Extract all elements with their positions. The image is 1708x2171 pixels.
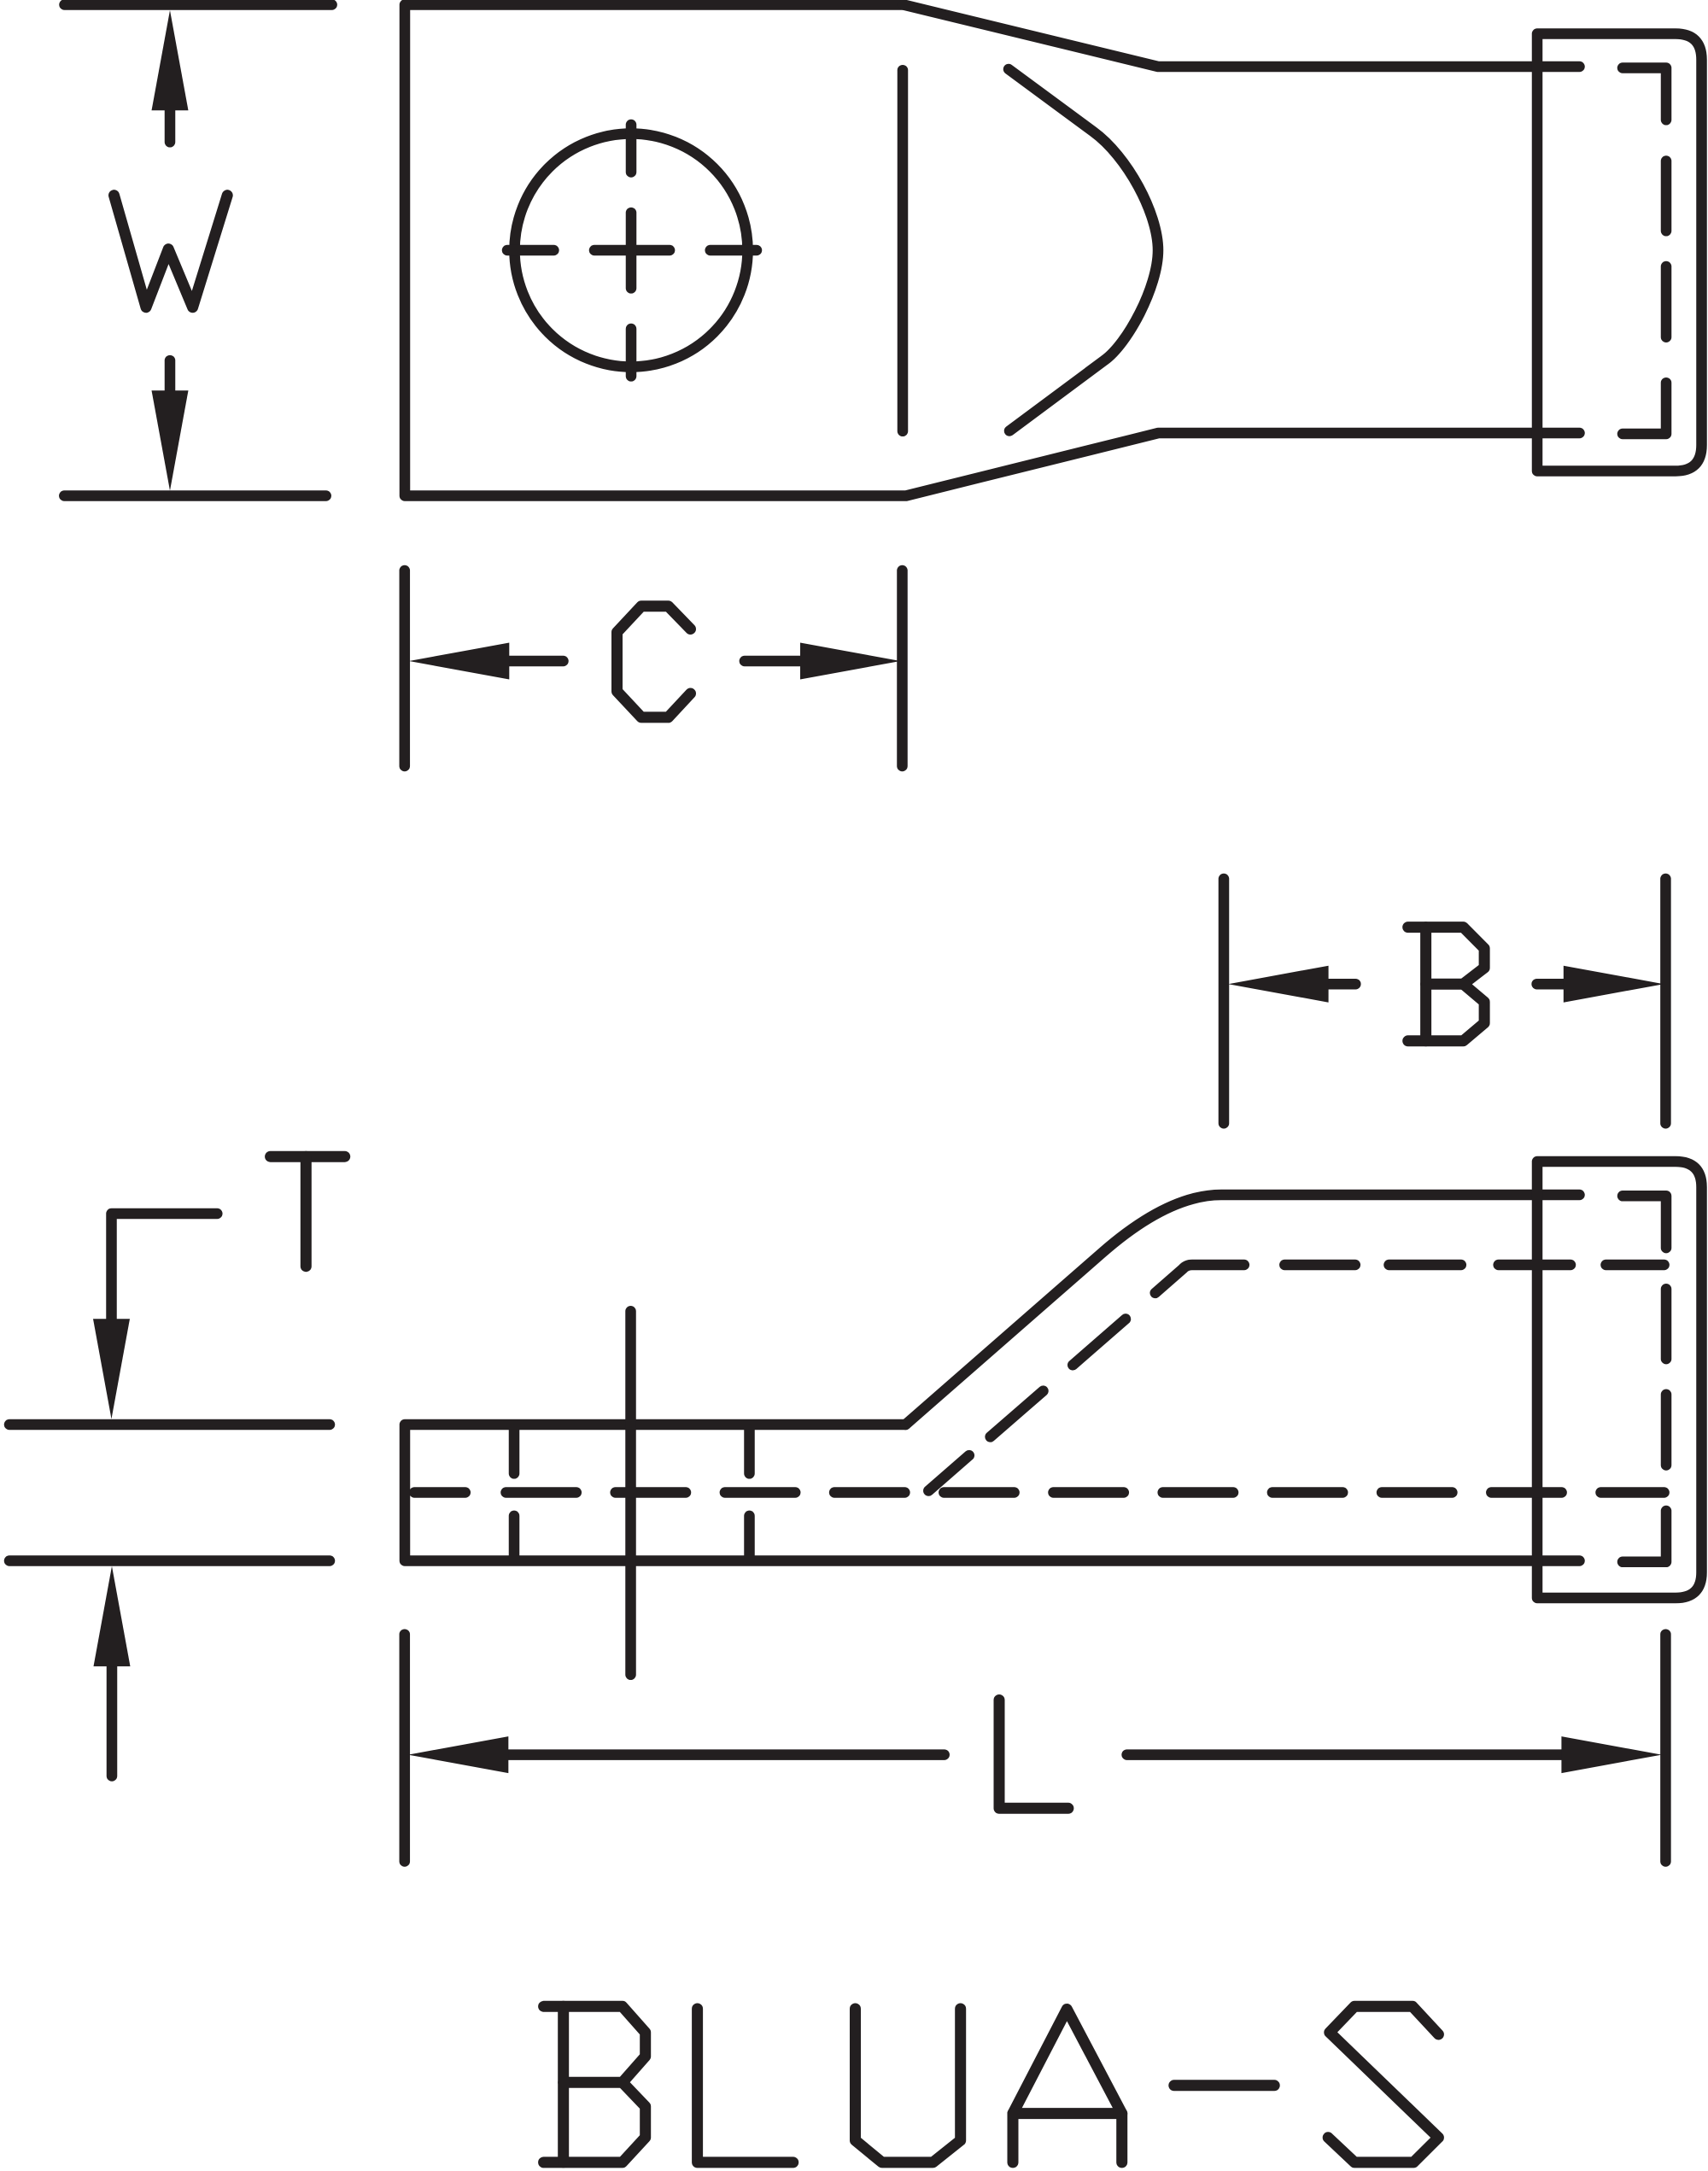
dimension T lower arrow stub — [107, 1659, 118, 1776]
dimension L left extension line — [400, 1635, 411, 1862]
side view hole centerline — [625, 1311, 636, 1675]
dimension W upper arrow stub — [165, 102, 176, 142]
dimension C right arrow stub — [745, 656, 804, 667]
dimension W top extension line — [65, 0, 332, 10]
side view bore bottom hidden line dashes — [414, 1487, 465, 1498]
side view bore top hidden oblique dash 2 — [991, 1391, 1044, 1437]
dimension C right arrowhead — [800, 643, 900, 680]
side view hole left edge lower segment — [509, 1516, 520, 1558]
side view bore top hidden horizontal dash 5 — [1606, 1260, 1664, 1271]
side view hole left edge upper segment — [509, 1430, 520, 1473]
side view barrel outline — [1537, 1162, 1702, 1598]
label B — [1408, 928, 1484, 985]
dimension B right arrowhead — [1564, 966, 1664, 1003]
side view hole right edge upper segment — [744, 1430, 755, 1473]
text letter B — [544, 2006, 646, 2082]
dimension W upper arrowhead — [152, 10, 189, 110]
dimension W bottom extension line — [64, 490, 325, 501]
side view barrel bore hidden line bottom corner — [1623, 1511, 1666, 1562]
top view barrel bore hidden line dash 3 — [1661, 266, 1672, 337]
side view bore top hidden oblique corner dash — [1155, 1265, 1244, 1293]
top view cup transition curve — [1009, 69, 1158, 431]
side view bore top hidden horizontal dash 4 — [1499, 1260, 1571, 1271]
side view bore top hidden oblique dash 3 — [1073, 1319, 1126, 1365]
hole crosshair bottom tick — [626, 329, 637, 376]
top view pad inner vertical line — [898, 70, 909, 431]
dimension L left arrow stub — [505, 1749, 945, 1760]
hole crosshair center vertical — [626, 213, 637, 288]
dimension W lower arrowhead — [152, 390, 189, 490]
dimension B left arrow stub — [1325, 979, 1355, 990]
dimension letters drawn as CAD stroke glyphs — [114, 196, 1485, 1809]
hole crosshair top tick — [626, 125, 637, 173]
top view barrel bore hidden line top corner — [1623, 68, 1666, 120]
dimension L right arrowhead — [1561, 1736, 1661, 1773]
dimension L right arrow stub — [1127, 1749, 1565, 1760]
side view barrel bore hidden vertical dash 2 — [1661, 1289, 1672, 1359]
text letter S — [1328, 2006, 1438, 2162]
dimension T top extension line — [9, 1419, 330, 1431]
text letter A — [1013, 2010, 1122, 2162]
side view hole right edge lower segment — [744, 1516, 755, 1558]
dimension W lower arrow stub — [165, 360, 176, 398]
top view pad outline with bottom taper and neck bottom line — [405, 5, 1580, 496]
dimension T leader line — [112, 1214, 218, 1327]
label W — [114, 196, 228, 307]
text letter U — [856, 2009, 961, 2162]
top view barrel outline — [1537, 34, 1702, 471]
top view barrel bore hidden line bottom corner — [1623, 383, 1666, 434]
side view bore top hidden oblique dash 1 — [928, 1455, 969, 1490]
dimension T lower arrowhead — [94, 1566, 131, 1666]
text letter L — [698, 2009, 793, 2162]
dimension L left arrowhead — [408, 1736, 508, 1773]
dimension B right extension line — [1660, 879, 1671, 1123]
side view bore top hidden horizontal dash 3 — [1389, 1260, 1461, 1271]
dimension T leader arrowhead — [93, 1319, 130, 1419]
side view barrel bore hidden vertical dash 3 — [1661, 1395, 1672, 1466]
label L — [999, 1700, 1068, 1809]
text hyphen — [1174, 2080, 1274, 2091]
dimension C left arrowhead — [409, 643, 509, 680]
dimension arrowheads — [93, 10, 1664, 1773]
dimension C left arrow stub — [506, 656, 564, 667]
dimension T bottom extension line — [9, 1555, 330, 1566]
side view barrel bore hidden line top corner — [1623, 1196, 1666, 1248]
top view top taper and neck top line — [904, 5, 1580, 67]
dimension B left extension line — [1219, 879, 1230, 1123]
hole crosshair left tick — [507, 245, 553, 256]
top view barrel bore hidden line dash 2 — [1661, 161, 1672, 231]
hole crosshair right tick — [711, 245, 757, 256]
dimension B right arrow stub — [1537, 979, 1567, 990]
side view bore top hidden horizontal dash 2 — [1284, 1260, 1355, 1271]
hole crosshair center horizontal — [594, 245, 670, 256]
part number text BLUA-S drawn as CAD stroke glyphs — [544, 2006, 1439, 2162]
dimension B left arrowhead — [1228, 966, 1328, 1003]
side view tongue outline and bottom line — [405, 1425, 1580, 1561]
label C — [617, 606, 691, 717]
dimension C left extension line — [400, 571, 411, 766]
side view oblique neck top line — [905, 1195, 1579, 1425]
hole circle — [515, 134, 748, 367]
label T — [271, 1151, 345, 1162]
dimension L right extension line — [1660, 1635, 1671, 1862]
dimension C right extension line — [897, 571, 908, 766]
